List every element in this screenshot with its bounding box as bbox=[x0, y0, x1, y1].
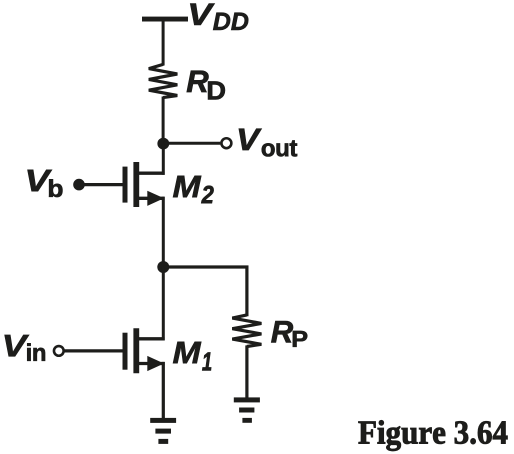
wire M2 source down to middle node bbox=[162, 197, 165, 268]
label M2 bbox=[173, 176, 214, 203]
ground under RP bbox=[234, 397, 260, 422]
caption Figure 3.64 bbox=[359, 420, 508, 451]
wire node to Vout terminal bbox=[163, 142, 220, 145]
VDD supply bar bbox=[142, 17, 188, 22]
transistor M1 bbox=[125, 328, 165, 373]
ground under M1 bbox=[150, 418, 176, 444]
resistor RP bbox=[232, 315, 261, 347]
wire Vb to M2 gate bbox=[79, 183, 123, 186]
label M1 bbox=[173, 342, 211, 371]
transistor M2 bbox=[125, 162, 165, 207]
wire Vin to M1 gate bbox=[65, 349, 123, 352]
resistor RD bbox=[149, 64, 178, 97]
Vin open terminal circle bbox=[54, 346, 64, 356]
wire M1 drain up to middle node bbox=[162, 267, 165, 340]
wire RD to output node bbox=[162, 97, 165, 145]
wire M1 source down to ground bbox=[162, 362, 165, 420]
node middle junction dot bbox=[157, 261, 169, 273]
Vb terminal dot bbox=[73, 179, 85, 191]
label RD bbox=[187, 71, 225, 100]
node output junction dot bbox=[157, 138, 169, 150]
wire RP to ground bbox=[245, 345, 248, 399]
label Vin bbox=[5, 335, 45, 361]
wire VDD bar to RD bbox=[162, 21, 165, 66]
wire M2 drain up to output node bbox=[162, 144, 165, 175]
label Vout bbox=[239, 129, 297, 157]
Vout open terminal circle bbox=[221, 138, 231, 148]
label Vb bbox=[28, 170, 63, 197]
label RP bbox=[271, 321, 307, 347]
wire middle node to RP branch bbox=[163, 267, 247, 316]
label VDD bbox=[190, 4, 248, 30]
